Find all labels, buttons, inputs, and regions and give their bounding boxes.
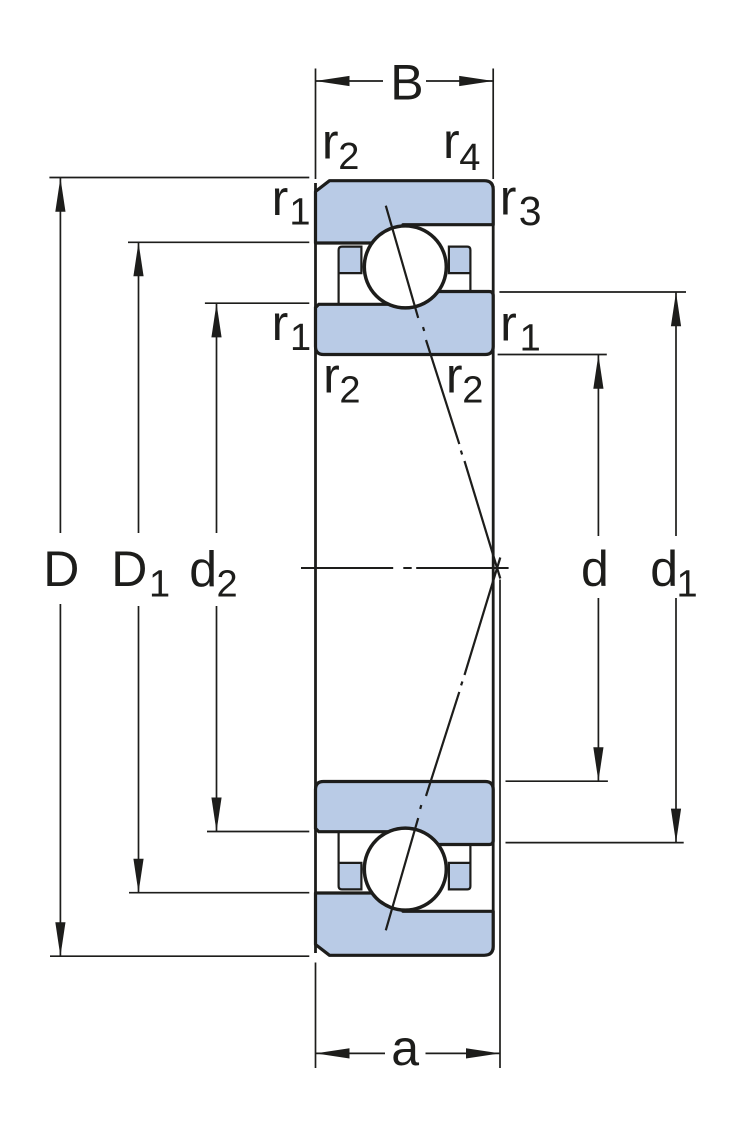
svg-text:r: r <box>322 113 339 169</box>
svg-text:r: r <box>323 347 340 403</box>
svg-text:D: D <box>111 541 147 597</box>
svg-text:r: r <box>500 169 517 225</box>
svg-text:D: D <box>43 541 79 597</box>
svg-text:d: d <box>189 541 217 597</box>
svg-text:2: 2 <box>217 563 238 605</box>
svg-text:a: a <box>391 1020 419 1076</box>
svg-text:r: r <box>272 170 289 226</box>
svg-text:1: 1 <box>149 563 170 605</box>
svg-text:2: 2 <box>339 370 360 412</box>
svg-text:d: d <box>581 541 609 597</box>
svg-text:1: 1 <box>520 317 541 359</box>
svg-text:B: B <box>390 54 423 110</box>
svg-text:2: 2 <box>462 370 483 412</box>
svg-text:1: 1 <box>290 317 311 359</box>
svg-text:3: 3 <box>519 188 542 234</box>
svg-text:1: 1 <box>677 563 698 605</box>
svg-text:2: 2 <box>338 136 359 178</box>
svg-text:r: r <box>446 347 463 403</box>
svg-text:r: r <box>443 113 460 169</box>
svg-text:r: r <box>500 295 517 351</box>
svg-text:1: 1 <box>289 192 310 234</box>
svg-text:r: r <box>272 295 289 351</box>
svg-text:d: d <box>650 541 678 597</box>
svg-text:4: 4 <box>459 137 480 179</box>
